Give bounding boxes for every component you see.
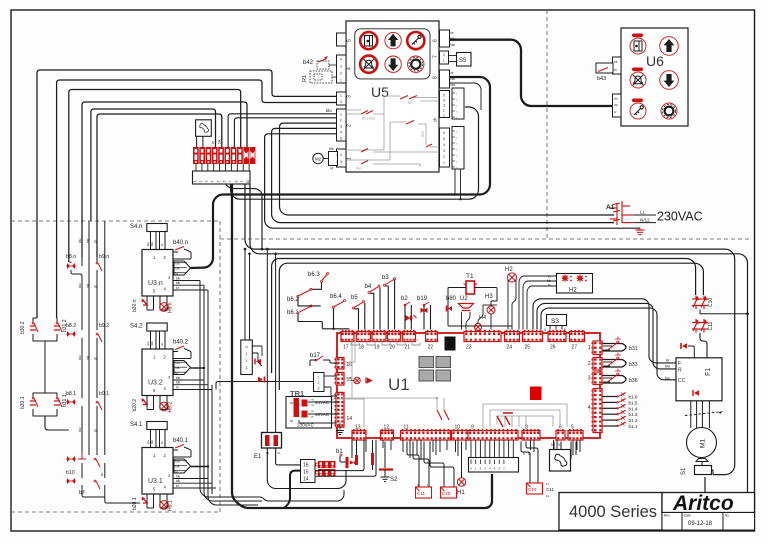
wire b6 chain 2 [298, 297, 321, 306]
plug on wire 13 [355, 455, 358, 465]
comb wires above U1 right terminals [603, 345, 612, 347]
svg-text:22: 22 [428, 345, 434, 351]
svg-text:br: br [160, 343, 164, 346]
svg-text:blk: blk [150, 341, 154, 345]
svg-text:2: 2 [340, 72, 342, 76]
svg-text:H5.n: H5.n [168, 302, 174, 313]
terminal 2 (U1 right) [591, 358, 602, 371]
svg-text:11: 11 [546, 482, 549, 486]
wire U5 pin4 to A1 N/L2 [272, 128, 614, 222]
cable U5 pin6 to U6 (thick) [450, 40, 613, 106]
stub connector B to cable 2 [460, 169, 462, 199]
svg-text:6: 6 [223, 180, 227, 182]
svg-text:b3: b3 [382, 275, 389, 281]
svg-text:U3.2: U3.2 [148, 380, 163, 387]
capacitor C11 (bottom) [416, 487, 432, 498]
svg-text:8: 8 [433, 76, 439, 79]
svg-text:24: 24 [507, 345, 513, 351]
svg-text:S1: S1 [681, 467, 687, 475]
drive unit F1 [676, 358, 722, 401]
lamp H3 [487, 306, 495, 314]
X2 stubs east [252, 346, 262, 356]
svg-text:b10: b10 [66, 470, 75, 476]
svg-text:M1: M1 [700, 439, 707, 448]
svg-text:b33: b33 [629, 362, 638, 368]
svg-text:27: 27 [572, 345, 578, 351]
svg-text:blu: blu [176, 376, 180, 380]
wire b6 chain 1 [312, 283, 322, 290]
svg-text:H1: H1 [457, 490, 465, 496]
terminal 15 (U1 left) [334, 372, 344, 385]
U5 pin box 5 [337, 33, 347, 46]
svg-text:5: 5 [443, 94, 445, 98]
wires 8 down to phone [521, 442, 530, 484]
switch b1.1 [603, 425, 618, 427]
svg-text:blk: blk [665, 364, 670, 369]
switch b1.5 [603, 401, 618, 403]
terminal 22 (U1 top) [426, 330, 438, 342]
terminal 6 (U1 bottom) [556, 429, 565, 440]
motor M2 [313, 153, 323, 163]
connector X2 left of U1 [244, 249, 246, 340]
wire run strip to S1 loop [245, 184, 735, 475]
svg-text:U1: U1 [388, 375, 410, 394]
svg-text:blk: blk [176, 479, 180, 483]
red speaker mark F1 top [682, 343, 687, 349]
svg-text:09-12-18: 09-12-18 [688, 521, 713, 527]
switch b9.n [96, 262, 102, 271]
wire b42-R1 to U5 [329, 64, 337, 66]
dashed partition left vertical [219, 221, 221, 512]
connector A1 [610, 201, 634, 225]
svg-text:C11: C11 [546, 487, 555, 492]
svg-text:M2: M2 [315, 157, 322, 162]
wire bundle top-left to U5/strip [37, 70, 337, 318]
svg-text:1: 1 [193, 180, 197, 182]
svg-text:14: 14 [347, 416, 353, 422]
icon key (U5) [407, 32, 424, 49]
svg-text:1: 1 [347, 157, 353, 160]
switch b1.4 [603, 407, 618, 409]
b2 plug mark [406, 315, 417, 321]
svg-text:Re1 Re2: Re1 Re2 [362, 117, 375, 121]
svg-text:b1.2: b1.2 [629, 418, 638, 423]
svg-text:S3: S3 [551, 318, 559, 325]
svg-text:No.: No. [725, 514, 730, 518]
svg-text:U3.n: U3.n [148, 280, 163, 287]
connector b43 [596, 63, 613, 73]
svg-text:Re: Re [408, 101, 412, 105]
svg-text:b30.2: b30.2 [20, 321, 26, 334]
svg-text:7: 7 [228, 180, 232, 182]
U5 pin box 6 [440, 30, 450, 47]
comb wires below U1 terminals [365, 440, 367, 452]
svg-text:E1: E1 [254, 454, 262, 460]
op-panel U5 [346, 21, 439, 172]
wires from 13 down [356, 440, 358, 455]
H2 box wires [519, 276, 557, 330]
icon door (U5) [360, 32, 377, 49]
terminal 3 (U1 right) [591, 372, 602, 385]
title sub boxes [662, 513, 682, 531]
lamp H4 [474, 323, 481, 330]
wire [97, 114, 222, 257]
cable wedge U3.1 [174, 459, 191, 473]
connector b20.n [147, 296, 154, 310]
bus wires right of U3 modules [199, 281, 201, 471]
wires 11 down to C11 C10 [407, 442, 419, 488]
wire run strip to S1 bottom loop [250, 184, 748, 501]
svg-text:N/L2: N/L2 [640, 217, 650, 222]
H2 shaft wires [507, 280, 509, 330]
M2 connector [329, 152, 338, 166]
cable U5 pin8 to U3 modules (thick) [191, 77, 491, 268]
limit switch loop b30.2 b31.2 [33, 318, 37, 322]
main board U1 [337, 333, 600, 438]
svg-text:blk: blk [451, 77, 456, 81]
svg-text:b8.2: b8.2 [66, 323, 76, 329]
svg-text:2: 2 [318, 381, 320, 385]
bus wires lower joins [200, 470, 344, 501]
capacitor pair C10 C11 (bottom right) [527, 483, 543, 494]
svg-text:41: 41 [417, 483, 421, 487]
svg-text:b19: b19 [417, 296, 428, 302]
svg-text:blu: blu [614, 97, 618, 101]
svg-text:9: 9 [240, 180, 244, 182]
svg-text:5: 5 [571, 425, 574, 431]
svg-text:blk: blk [329, 147, 334, 151]
svg-text:bk: bk [266, 451, 270, 455]
svg-text:8: 8 [234, 180, 238, 182]
terminal strip X1 (red terminals) [193, 147, 199, 164]
svg-text:C10: C10 [442, 491, 451, 496]
switch S3 [547, 315, 567, 326]
svg-text:H3: H3 [485, 294, 493, 300]
svg-text:C10: C10 [528, 487, 537, 492]
terminal 16 (U1 left) [334, 358, 344, 370]
svg-text:8: 8 [525, 425, 528, 431]
wires 6 and 5 down [570, 442, 572, 460]
cable wedge U3.n [174, 261, 191, 275]
wire L1 [634, 214, 656, 216]
F1 internal mark [694, 390, 699, 396]
U1 indicator near 15 [351, 377, 372, 383]
wire E1 to run 2 [275, 254, 277, 433]
strip lower connector box [193, 171, 251, 184]
title box 4000 Series [559, 493, 662, 531]
svg-text:U5: U5 [371, 84, 389, 100]
svg-text:9: 9 [471, 425, 474, 431]
switch b7 [66, 478, 76, 484]
icon door (U6) [630, 38, 646, 54]
svg-text:br: br [614, 110, 617, 114]
interface U3.n [142, 250, 173, 297]
U1 service connector (black) [445, 337, 456, 351]
svg-text:blu: blu [451, 83, 456, 87]
svg-text:blu: blu [176, 277, 180, 281]
svg-text:U6: U6 [646, 53, 664, 69]
wedge stub U3.2 [191, 367, 205, 369]
svg-text:5: 5 [528, 452, 530, 456]
wire bundle pin8 area [450, 83, 482, 110]
svg-text:b1.6: b1.6 [629, 395, 638, 400]
switch b36 [603, 376, 627, 384]
b1 plug symbols [346, 457, 349, 468]
icon arrow-down (U5) [385, 56, 401, 72]
wire bus to TR1 connector [216, 382, 314, 390]
wire strip box elbow [226, 184, 262, 249]
svg-text:b2: b2 [401, 296, 408, 302]
S3 wires [549, 326, 551, 330]
op-panel U6 [621, 28, 688, 126]
svg-text:b9.2: b9.2 [99, 323, 109, 329]
svg-text:25: 25 [525, 345, 531, 351]
wires b5 down [355, 309, 359, 330]
svg-text:ch: ch [433, 117, 438, 122]
svg-text:2: 2 [443, 53, 445, 57]
svg-text:10: 10 [246, 180, 250, 184]
svg-text:U3.1: U3.1 [148, 478, 163, 485]
svg-text:1: 1 [340, 113, 342, 117]
svg-text:6: 6 [443, 131, 445, 135]
svg-text:b4: b4 [365, 284, 372, 290]
phone box (car phone) [196, 120, 212, 137]
switch b1.3 [603, 413, 618, 415]
wire 15 row to U1 terminal 13 [315, 440, 364, 471]
lamp H5.2 [160, 396, 167, 410]
wire phone to strip [196, 136, 198, 147]
svg-text:S4.2: S4.2 [130, 324, 143, 330]
dashed partition bottom [11, 511, 220, 513]
terminal 23 (U1 top) [464, 330, 501, 342]
wire [234, 118, 336, 147]
wire M2 to U5 [337, 154, 338, 156]
svg-text:2: 2 [246, 359, 248, 363]
wire 12b [384, 442, 386, 469]
U6 connector upper [613, 57, 622, 74]
svg-text:1: 1 [443, 114, 445, 118]
svg-text:b20.1: b20.1 [132, 497, 138, 510]
svg-text:br: br [160, 243, 164, 246]
U5 relay contacts (red) [361, 96, 432, 165]
U5 pin box 1-3 [337, 92, 347, 105]
terminal 1 (U1 right) [591, 341, 602, 355]
icon no-alarm (U6) [630, 72, 646, 88]
svg-text:CC: CC [678, 378, 686, 384]
chain wires low [81, 406, 83, 455]
svg-text:blu: blu [326, 108, 332, 113]
svg-text:b8.1: b8.1 [66, 391, 76, 397]
svg-text:C11: C11 [708, 321, 714, 330]
stub connector B to cable [454, 169, 456, 195]
svg-text:b40.2: b40.2 [173, 340, 189, 346]
terminal 13 (U1 bottom) [352, 429, 366, 440]
mains ground [636, 228, 645, 234]
svg-text:26: 26 [550, 345, 556, 351]
svg-text:3: 3 [347, 95, 353, 98]
interface U3.2 [142, 349, 173, 396]
wire b6.4 down [333, 308, 335, 329]
svg-text:blu: blu [176, 475, 180, 479]
U5 connector A external [452, 88, 464, 119]
svg-text:4000 Series: 4000 Series [569, 503, 657, 521]
chain wires b10 [81, 463, 83, 478]
svg-text:15: 15 [303, 470, 309, 476]
svg-text:bk: bk [290, 419, 294, 423]
icon alarm bell (U6) [661, 103, 677, 119]
svg-text:blk: blk [150, 242, 154, 246]
connector b20.1 [147, 494, 154, 508]
terminal 8 (U1 bottom) [522, 429, 540, 440]
svg-text:H5.1: H5.1 [168, 500, 174, 511]
connector b20.2 [147, 396, 154, 410]
wires b4 down [370, 293, 374, 329]
U1 internal wiring (gray) [300, 340, 567, 431]
E1 lower wires [267, 448, 346, 489]
svg-text:3: 3 [443, 104, 445, 108]
wire C10 junction [700, 310, 748, 314]
T1 wires loop [448, 288, 512, 330]
b19 plug mark [421, 309, 427, 313]
svg-text:12: 12 [384, 425, 390, 431]
svg-text:3: 3 [340, 100, 342, 104]
wire C11 to F1 [700, 333, 707, 358]
svg-text:2: 2 [443, 155, 445, 159]
svg-text:6: 6 [433, 39, 439, 42]
chain wires mid [81, 338, 83, 398]
svg-text:Re1: Re1 [356, 167, 362, 171]
dashed partition left horizontal [11, 220, 220, 222]
svg-text:2: 2 [588, 361, 591, 367]
svg-text:bk: bk [614, 60, 618, 64]
svg-text:b6.4: b6.4 [330, 294, 342, 300]
capacitor C10 [692, 296, 708, 310]
lamp H5.1 [160, 494, 167, 508]
thick wire from strip down to bottom rail [232, 184, 492, 508]
svg-text:or: or [311, 409, 314, 413]
arrow mark left of b17 [258, 377, 263, 383]
U5 connector A (right) [440, 91, 450, 118]
svg-text:3: 3 [588, 376, 591, 382]
switch b9.2 [96, 333, 102, 342]
svg-text:3: 3 [443, 149, 445, 153]
svg-text:F: F [678, 361, 681, 367]
svg-text:1: 1 [340, 94, 342, 98]
wire run to C11 [279, 263, 703, 390]
svg-text:A1: A1 [606, 204, 615, 211]
wire loop1-loop2 [44, 341, 46, 393]
svg-text:3: 3 [340, 125, 342, 129]
svg-text:H2: H2 [505, 267, 513, 273]
H1 wire [461, 442, 463, 478]
svg-text:3: 3 [205, 180, 209, 182]
svg-text:rd: rd [311, 403, 314, 407]
svg-text:5: 5 [523, 452, 525, 456]
svg-text:blk: blk [176, 281, 180, 285]
phone wires [553, 442, 555, 450]
svg-text:S4.1: S4.1 [130, 422, 143, 428]
wire to F1 top [688, 346, 694, 358]
wedge stub U3.1 [191, 466, 209, 468]
title box Aritco [662, 493, 755, 513]
U6 indicator bars [632, 34, 643, 38]
svg-text:S2: S2 [390, 477, 398, 483]
U2 wires to U1 [461, 312, 463, 330]
icon alarm bell (U5) [408, 56, 424, 72]
svg-text:blu: blu [78, 283, 82, 288]
svg-text:C10: C10 [708, 298, 714, 307]
connector strip below 9 [469, 458, 519, 473]
svg-text:2: 2 [443, 109, 445, 113]
svg-text:b43: b43 [597, 76, 606, 82]
svg-text:S5: S5 [459, 58, 467, 64]
svg-text:Rev: Rev [664, 514, 670, 518]
motor M1 [687, 428, 717, 458]
wire [202, 136, 204, 147]
svg-text:blu: blu [176, 361, 180, 365]
U1 relay bank (gray) [419, 357, 434, 368]
switch b1.6 [603, 396, 618, 398]
wire 14 row to U1 terminal 12 [315, 440, 376, 476]
svg-text:230VAC: 230VAC [657, 210, 703, 224]
svg-text:3: 3 [318, 387, 320, 391]
terminal box 16-15-14 [301, 460, 316, 483]
svg-text:b31: b31 [629, 346, 638, 352]
wire [82, 102, 247, 257]
icon key (U6) [630, 103, 646, 119]
svg-text:H5.2: H5.2 [168, 402, 174, 413]
terminal 17 (U1 top) [341, 330, 354, 342]
terminal 18 (U1 top) [357, 330, 371, 342]
terminal 27 (U1 top) [570, 330, 585, 342]
svg-text:blk: blk [86, 355, 90, 360]
svg-text:R: R [678, 368, 682, 374]
terminal 12 (U1 bottom) [381, 429, 394, 440]
svg-text:blk: blk [218, 139, 222, 144]
svg-text:b20.2: b20.2 [132, 399, 138, 412]
svg-text:16: 16 [347, 362, 353, 368]
phone box (car) [550, 450, 571, 472]
wire N/L2 [634, 222, 656, 224]
U5 pin box 8 [440, 70, 450, 88]
svg-text:blk: blk [176, 381, 180, 385]
S1 right wire [712, 470, 714, 475]
svg-text:L1: L1 [640, 210, 646, 215]
svg-text:24VAC: 24VAC [315, 400, 330, 405]
svg-text:F: F [564, 328, 566, 332]
svg-text:blk: blk [176, 366, 180, 370]
icon no-alarm (U5) [360, 56, 377, 73]
terminal 19 (U1 top) [372, 330, 386, 342]
wire [91, 109, 216, 221]
svg-text:b20.n: b20.n [132, 299, 138, 312]
svg-text:b1.4: b1.4 [629, 406, 638, 411]
svg-text:blk: blk [614, 103, 618, 107]
wire loop2 down-right [45, 416, 69, 430]
svg-text:Aritco: Aritco [672, 492, 734, 515]
svg-text:b9.1: b9.1 [99, 391, 109, 397]
wire E1 to run [266, 249, 268, 433]
svg-text:5: 5 [551, 443, 553, 447]
switch b8.2 [66, 331, 76, 337]
wire run to C10 [272, 259, 696, 374]
lamp H1 [457, 478, 465, 486]
svg-text:2: 2 [199, 180, 203, 182]
U5 connector B (right) [440, 128, 450, 167]
terminal 26 (U1 top) [548, 330, 566, 342]
svg-text:5: 5 [340, 137, 342, 141]
U5 pin box 4-group [337, 55, 347, 83]
